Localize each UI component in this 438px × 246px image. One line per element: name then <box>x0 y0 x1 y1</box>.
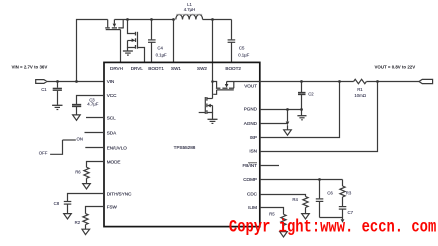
svg-text:Copyr ight:www. eccn. com: Copyr ight:www. eccn. com <box>229 217 436 237</box>
node PGND branch <box>286 108 289 111</box>
wire SW1 pin <box>173 20 175 63</box>
capacitor C3 4.7uF <box>72 97 99 115</box>
node C2 junction <box>300 80 303 83</box>
ground arrow under R6 <box>83 184 91 189</box>
capacitor C5 <box>228 20 250 63</box>
svg-text:0.1µF: 0.1µF <box>238 53 249 58</box>
ground under Q4 <box>208 113 218 124</box>
resistor R6 <box>75 167 89 183</box>
wire riser to top rail <box>77 20 108 82</box>
svg-text:10mΩ: 10mΩ <box>354 93 366 98</box>
overline on INT of FB/INT <box>248 162 257 164</box>
wire DRVH gate to pin <box>120 30 122 63</box>
capacitor C6 <box>316 180 334 218</box>
resistor R4 <box>292 197 308 214</box>
output label VOUT = 0.8V to 22V <box>375 65 416 70</box>
switch ON/OFF on EN/UVLO <box>39 137 104 156</box>
svg-text:COMP: COMP <box>243 177 257 182</box>
svg-text:ILIM: ILIM <box>248 205 257 210</box>
svg-text:4.7µH: 4.7µH <box>184 7 196 12</box>
wire FB/INT stub <box>260 165 279 167</box>
ground arrow comp network <box>342 218 344 220</box>
wire PGND <box>260 109 302 111</box>
ground under Q2 <box>123 48 133 56</box>
svg-text:R2: R2 <box>75 220 81 225</box>
svg-text:FSW: FSW <box>107 205 118 210</box>
ground arrow under R5 <box>280 232 288 237</box>
transistor Q4 (internal boost low-side) <box>199 97 213 114</box>
wire VCC pin <box>77 96 105 105</box>
output terminal J2 <box>419 79 433 83</box>
node SW1 junction <box>172 18 175 21</box>
svg-text:VIN = 2.7V to 36V: VIN = 2.7V to 36V <box>12 64 48 69</box>
svg-text:MODE: MODE <box>107 160 121 165</box>
input label VIN = 2.7V to 36V <box>12 64 48 69</box>
capacitor C7 <box>339 207 354 218</box>
wire DRVL gate to pin <box>138 48 145 63</box>
wire ISN <box>260 82 378 152</box>
svg-text:SW1: SW1 <box>171 66 181 71</box>
svg-text:OFF: OFF <box>39 151 48 156</box>
svg-text:C1: C1 <box>41 87 47 92</box>
capacitor C1 <box>41 82 62 105</box>
node riser junction <box>75 80 78 83</box>
node SW2 junction <box>211 18 214 21</box>
transistor Q3 (internal boost high-side) <box>213 82 235 95</box>
wire ILIM to R5 <box>260 208 284 215</box>
svg-text:C4: C4 <box>157 45 163 50</box>
IC U1 TPS55288 buck-boost converter box <box>104 62 260 226</box>
node SW2/Q3 junction <box>211 80 214 83</box>
wire ISP <box>260 82 340 138</box>
transistor Q1 (high-side FET, DRVH) <box>105 20 124 30</box>
svg-text:CDC: CDC <box>247 192 258 197</box>
svg-text:SW2: SW2 <box>197 66 207 71</box>
node C4 junction <box>150 18 153 21</box>
resistor R3 <box>340 180 352 207</box>
inductor L1 4.7uH <box>176 2 203 19</box>
wire CDC to R4 <box>260 195 306 197</box>
svg-text:VOUT = 0.8V to 22V: VOUT = 0.8V to 22V <box>375 65 416 70</box>
node C1 junction <box>56 80 59 83</box>
resistor R2 <box>75 214 89 230</box>
svg-text:C8: C8 <box>54 201 60 206</box>
wire comp network bottom <box>320 217 343 219</box>
svg-text:SDA: SDA <box>107 131 117 136</box>
capacitor C8 <box>54 201 72 214</box>
svg-text:ISN: ISN <box>249 149 257 154</box>
wire FSW to R2 <box>86 207 105 214</box>
svg-text:DRVL: DRVL <box>131 66 144 71</box>
resistor R5 <box>269 211 286 231</box>
ground arrow under R4 <box>302 214 310 219</box>
ground arrow under AGND <box>287 125 289 130</box>
ground under C2 <box>297 116 306 120</box>
ground under C1 <box>52 105 62 109</box>
transistor Q2 (low-side FET, DRVL) <box>128 20 138 49</box>
svg-text:C6: C6 <box>327 190 333 195</box>
svg-text:R6: R6 <box>75 170 81 175</box>
svg-text:DITH/SYNC: DITH/SYNC <box>107 192 132 197</box>
svg-text:EN/UVLO: EN/UVLO <box>107 146 128 151</box>
wire SW2 down to internal FETs <box>212 20 214 99</box>
ground arrow under R2 <box>82 229 90 234</box>
svg-text:DRVH: DRVH <box>110 66 123 71</box>
node PGND to C2 junction <box>300 108 303 111</box>
wire VOUT rail <box>260 81 354 83</box>
wire SDA stub <box>85 132 105 134</box>
input terminal J1 <box>36 80 47 84</box>
svg-text:R1: R1 <box>357 87 363 92</box>
svg-text:FB/INT: FB/INT <box>242 163 257 168</box>
ground arrow under C3 <box>73 115 81 120</box>
svg-text:R4: R4 <box>292 197 298 202</box>
svg-text:TPS55288: TPS55288 <box>174 145 196 150</box>
watermark copyright text <box>229 217 436 237</box>
wire COMP <box>260 179 343 181</box>
wire DITH/SYNC to C8 <box>68 194 105 202</box>
capacitor C2 <box>298 82 314 116</box>
svg-text:0.1µF: 0.1µF <box>156 53 167 58</box>
svg-text:ISP: ISP <box>250 135 257 140</box>
node FET2 drain junction <box>126 18 129 21</box>
node ISP junction <box>338 80 341 83</box>
wire PGND down to AGND <box>287 110 289 122</box>
svg-text:C5: C5 <box>239 45 245 50</box>
svg-text:AGND: AGND <box>244 121 258 126</box>
wire SCL stub <box>86 117 104 119</box>
svg-text:BOOT1: BOOT1 <box>148 66 164 71</box>
svg-text:VCC: VCC <box>107 93 117 98</box>
svg-text:VOUT: VOUT <box>244 84 257 89</box>
svg-text:PGND: PGND <box>244 107 258 112</box>
ground arrow under C8 <box>64 214 72 219</box>
svg-text:ON: ON <box>77 137 83 142</box>
node ISN junction <box>376 80 379 83</box>
wire AGND <box>260 123 288 125</box>
svg-text:SCL: SCL <box>107 116 116 121</box>
svg-text:BOOT2: BOOT2 <box>225 66 241 71</box>
svg-text:VIN: VIN <box>107 79 115 84</box>
wire SW2 top rail <box>203 19 232 21</box>
svg-text:C2: C2 <box>308 91 314 96</box>
capacitor C4 <box>148 20 167 63</box>
node C6 junction <box>318 178 321 181</box>
svg-text:R5: R5 <box>269 211 275 216</box>
svg-text:C7: C7 <box>348 210 354 215</box>
resistor R1 10mOhm (sense) <box>354 79 367 98</box>
svg-text:R3: R3 <box>346 190 352 195</box>
wire Q3 drain to VOUT pin <box>227 81 260 83</box>
wire top rail SW1 node <box>114 19 173 21</box>
wire VIN input rail <box>47 81 104 83</box>
wire MODE to R6 <box>87 162 105 168</box>
svg-text:4.7µF: 4.7µF <box>87 101 98 106</box>
